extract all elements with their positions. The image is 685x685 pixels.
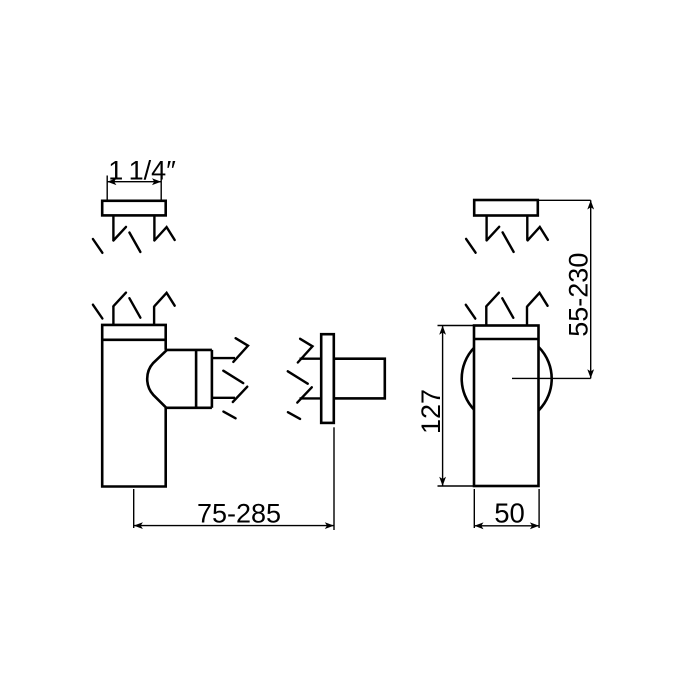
nut (top view detail) (102, 201, 166, 216)
svg-text:75-285: 75-285 (197, 499, 281, 529)
nut line on body (102, 338, 166, 341)
wall flange rosette (321, 334, 334, 423)
legs above body (486, 306, 527, 326)
dim line 1 1/4 (107, 176, 161, 201)
center leader line (512, 377, 591, 379)
cup circle (behind body) (462, 334, 552, 424)
svg-text:50: 50 (494, 498, 525, 529)
outlet cup outline (147, 350, 167, 408)
outlet pipe (212, 358, 235, 398)
wall pipe left lines (300, 359, 322, 399)
break marks below nut (93, 227, 175, 253)
svg-text:55-230: 55-230 (564, 253, 594, 337)
nut line (474, 338, 539, 341)
body rectangle side (474, 326, 539, 487)
outlet top/bottom lines (165, 350, 212, 408)
break marks at wall pipe start (288, 339, 313, 419)
pipe legs below nut (113, 215, 154, 240)
body rectangle (right edge interrupted by outlet cup) (102, 325, 166, 487)
break marks above body (93, 293, 175, 319)
break marks at outlet pipe end (223, 338, 248, 418)
inlet pipe legs above body (113, 306, 154, 325)
wall pipe into wall (334, 359, 385, 399)
svg-text:127: 127 (416, 389, 446, 434)
